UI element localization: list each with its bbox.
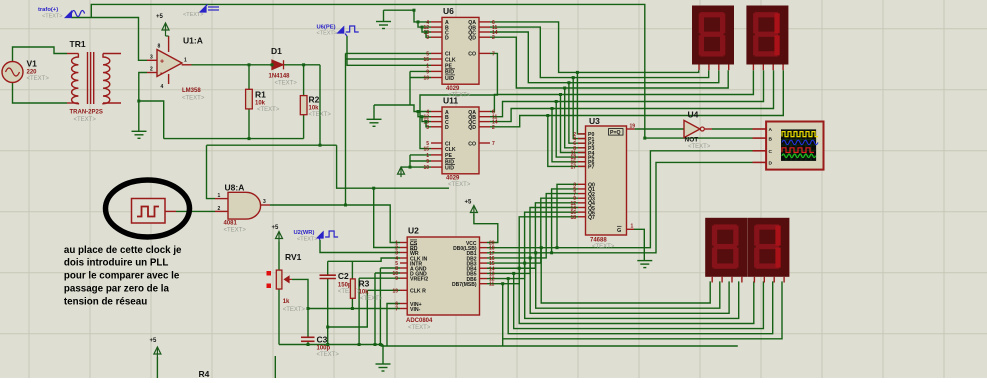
svg-text:C2: C2 [338,271,349,281]
wire - ground stem U11 [373,105,375,119]
svg-text:U/D: U/D [445,165,454,171]
svg-text:NOT: NOT [685,137,699,144]
svg-text:trafo(+): trafo(+) [38,7,58,13]
wire - D GND down to rail [374,273,376,345]
svg-text:1: 1 [426,63,429,69]
svg-text:<TEXT>: <TEXT> [283,307,306,313]
svg-text:U3: U3 [589,116,600,126]
svg-text:2: 2 [150,67,153,73]
wire - U6 CI row [346,52,432,54]
voltage probe on op-amp top net [200,6,219,12]
wire - U6 U/D row [410,77,431,79]
wire - DB6 to bottom display [508,279,773,334]
ADC U2 (ADC0804) [407,237,479,315]
svg-text:<TEXT>: <TEXT> [338,289,361,295]
clock source (square wave generator) [132,199,166,224]
power +5V arrow bottom left [154,347,161,357]
wire - tap down to U3 P1 [573,78,585,139]
wire - top long net from probe node to scope channel B [91,4,752,138]
buffer U4 (NOT gate) [684,120,700,137]
wire - DB1 to bottom display [536,253,720,308]
voltage probe U2(WR) [317,231,338,238]
wire - U11 jam D [426,122,431,127]
svg-text:+5: +5 [272,225,280,231]
svg-text:15: 15 [423,147,429,153]
svg-text:+5: +5 [465,200,473,206]
wire - +5 stem bottom [156,357,158,378]
svg-text:QD: QD [468,36,476,42]
svg-text:<TEXT>: <TEXT> [360,296,383,302]
svg-text:U8:A: U8:A [225,183,245,193]
wire - signal down and right [337,145,449,188]
wire - U6 B/D,U/D tie down [409,71,411,105]
wire - P=Q output to U4 input [635,128,684,130]
wire - +5 to RV1 top [278,242,280,271]
svg-text:3: 3 [263,199,266,205]
power +5V arrow for U1:A [162,23,169,33]
svg-text:U11: U11 [443,96,458,106]
svg-text:A: A [769,127,773,133]
svg-text:<TEXT>: <TEXT> [42,14,62,20]
wire - C3 bottom lead [307,341,309,344]
wire - feedback branch [139,101,164,139]
wire - U2 DB6 to U3 Q6 [487,212,578,278]
scope trace channel C (red square) [782,148,814,153]
svg-text:19: 19 [392,288,398,294]
svg-text:1k: 1k [283,299,290,305]
svg-text:QD: QD [468,125,476,131]
wire - U11 PE/BD tie [409,155,411,167]
wire - DB5 to bottom display [514,273,764,328]
ground - U11 jam inputs [367,119,382,126]
svg-text:VREF/2: VREF/2 [410,277,428,283]
wire - U6 jam B [418,22,431,27]
svg-text:7: 7 [492,141,495,147]
junction dots [137,100,140,103]
svg-text:P7: P7 [588,165,594,171]
scope trace channel B (blue sine) [782,140,818,144]
AND gate U8:A [228,192,261,219]
svg-text:D: D [769,161,773,167]
svg-text:1: 1 [426,153,429,159]
annotation ellipse around clock [106,180,190,237]
svg-text:<TEXT>: <TEXT> [182,96,205,102]
wire - wire to R4 off-screen [274,356,276,378]
wire - U6 QD to display1 [490,37,728,88]
wire - C2/R3 top node to U2 CLK IN [328,258,400,261]
wire - C2 bottom lead to rail [327,279,329,345]
7-segment display: top display 2 [746,6,788,65]
wire - U2 CLK R row [367,289,400,291]
svg-text:CLK: CLK [445,147,456,153]
svg-text:RV1: RV1 [285,252,302,262]
wire - DB7 vertical tie to ground line [502,339,504,346]
wire - DB1 up to U3 Q1 [552,189,578,253]
wire - V1 top to TR1 primary [13,47,68,62]
wire - R3 top lead [351,261,353,279]
wire - U2 VCC to +5 [474,214,498,243]
wire - op-amp inverting input down to ground [139,73,147,132]
svg-text:G: G [617,228,621,234]
svg-text:R3: R3 [359,278,370,288]
wire - DB3 to bottom display [525,263,739,318]
power +5V arrow for RV1 [276,232,283,242]
wire - U11 QD to display2 [490,70,783,127]
svg-text:R2: R2 [309,95,320,105]
svg-text:CLK R: CLK R [410,289,426,295]
svg-text:220: 220 [27,70,38,76]
wire - ground stem top [383,10,385,21]
wire - tap down to U3 P7 [548,116,586,167]
wire - U8:A output to U2 CS [270,205,400,243]
wire - U11 PE row [410,154,431,156]
wire - DB7 to bottom display [503,281,782,338]
wire - ground to U6 jam input A [384,10,432,22]
wire - tap down to U3 P2 [569,83,586,144]
svg-text:C: C [769,149,773,155]
wire - tap down to U3 P5 [556,102,585,158]
svg-text:TR1: TR1 [70,39,86,49]
wire - U11 B/D row [410,160,431,162]
svg-text:74688: 74688 [590,238,607,244]
wire - RV1 wiper to U2 VIN- [292,279,400,308]
svg-text:au place de cette clock je: au place de cette clock je [64,245,182,256]
comparator U3 (74688) [586,126,627,235]
svg-text:VIN-: VIN- [410,307,421,313]
wire - U6 jam C [422,27,431,32]
svg-text:ADC0804: ADC0804 [406,318,433,324]
svg-text:<TEXT>: <TEXT> [275,81,298,87]
svg-text:15: 15 [423,57,429,63]
wire - U2 DB3 to U3 Q3 [487,198,578,263]
svg-text:R4: R4 [199,369,210,378]
svg-text:7: 7 [395,307,398,313]
wire - U2 D GND row [375,272,400,274]
wire - long ground return line [381,345,738,347]
svg-text:1: 1 [631,224,634,230]
svg-text:18: 18 [570,215,576,221]
wire - probe to U6 PE [347,36,431,65]
diode D1 [272,60,284,69]
wire - U11 QC to display2 [490,70,774,121]
wire - tap down to U3 P6 [552,109,586,162]
counter U11 (4029) [442,107,479,174]
svg-text:<TEXT>: <TEXT> [317,352,340,358]
scope trace channel D (green sine) [782,154,816,158]
svg-text:2: 2 [492,35,495,41]
svg-text:TRAN-2P2S: TRAN-2P2S [70,110,103,116]
svg-text:U2: U2 [408,226,419,236]
wire - analog ground rail [279,344,383,346]
wire - R3 bottom lead [351,298,353,308]
svg-text:<TEXT>: <TEXT> [297,237,317,243]
svg-text:P=Q: P=Q [610,130,621,136]
svg-text:<TEXT>: <TEXT> [688,144,711,150]
svg-text:4029: 4029 [446,176,460,182]
wire - probe node to op-amp non-inverting input [71,18,147,61]
oscilloscope [766,122,823,170]
capacitor C3 [301,337,315,341]
wire - tap down to U3 P3 [565,88,586,148]
wire - ground to U11 jam A [374,105,431,112]
wire - DB4 to bottom display [519,268,754,323]
svg-text:+: + [160,59,164,66]
svg-text:<TEXT>: <TEXT> [257,107,280,113]
wire - U6 CLK row [346,58,432,60]
transformer TR1 [67,52,121,104]
wire - U4 output to scope A [712,128,753,130]
svg-text:dois introduire un PLL: dois introduire un PLL [64,258,169,269]
wire - zero-cross signal line [207,144,337,146]
power +5V arrow for U2 VCC [470,206,477,216]
7-segment display: bottom display 3 [705,218,747,277]
wire - U11 jam C [422,117,431,122]
wire - tap down to U3 P4 [561,95,586,153]
wire - U6 CO cascade to U11 CLK [420,53,497,148]
svg-text:CO: CO [468,52,476,58]
svg-text:B: B [769,136,773,142]
svg-text:10k: 10k [255,101,266,107]
svg-text:9: 9 [426,69,429,75]
svg-text:CLK: CLK [445,57,456,63]
svg-text:17: 17 [570,164,576,170]
svg-text:8: 8 [158,44,161,50]
svg-text:DB7(MSB): DB7(MSB) [452,282,477,288]
wire - U2 DB5 to U3 Q5 [487,208,578,274]
power +5V arrow for U11 [398,167,405,177]
svg-text:<TEXT>: <TEXT> [74,117,97,123]
wire - tap down to U3 P0 [577,72,585,133]
svg-text:3: 3 [426,35,429,41]
svg-text:10k: 10k [359,290,370,296]
voltage source V1 [2,62,23,83]
svg-text:7: 7 [492,51,495,57]
svg-text:D: D [445,125,449,131]
svg-text:4081: 4081 [224,221,238,227]
wire - U2 DB2 to U3 Q2 [487,194,578,258]
ground - analog rail [376,364,391,371]
svg-text:4: 4 [161,84,164,90]
svg-text:3: 3 [150,55,153,61]
wire - signal to U8:A input 1 [207,145,216,198]
svg-text:100p: 100p [317,346,331,352]
counter U6 (4029) [442,17,479,84]
wire - V1 bottom to TR1 primary [13,83,68,104]
svg-text:U1:A: U1:A [183,36,203,46]
svg-text:passage par zero de la: passage par zero de la [64,284,170,295]
svg-text:4029: 4029 [446,86,460,92]
svg-text:19: 19 [630,124,636,130]
wire - U3 G to ground [634,229,644,260]
svg-text:V1: V1 [27,59,38,69]
potentiometer RV1 [276,270,282,289]
wire - bottom rail of R1/R2 network [164,138,304,140]
svg-text:LM358: LM358 [182,88,201,94]
svg-text:<TEXT>: <TEXT> [408,325,431,331]
capacitor C2 [320,275,336,278]
svg-text:2: 2 [492,125,495,131]
ground - U3 enable [637,261,652,268]
svg-text:D1: D1 [271,46,282,56]
svg-text:Q7: Q7 [588,215,595,221]
svg-text:10: 10 [423,165,429,171]
svg-text:U/D: U/D [445,76,454,82]
wire - branch to U2 RD [374,188,400,247]
svg-text:1N4148: 1N4148 [269,74,291,80]
wire - U2 DB4 to U3 Q4 [487,203,578,268]
wire - U2 DB0 row to scope C [487,151,753,248]
wire - DB2 to bottom display [530,258,729,313]
svg-text:pour le comparer avec le: pour le comparer avec le [64,271,180,282]
svg-text:<TEXT>: <TEXT> [309,112,332,118]
wire - U11 jam B [418,112,431,117]
svg-text:<TEXT>: <TEXT> [27,76,50,82]
resistor R3 [350,279,355,298]
wire - rail to ground [382,345,384,364]
resistor R1 [248,65,250,90]
wire - C2 top lead [327,261,329,275]
wire - op-amp output net [192,64,321,66]
svg-text:<TEXT>: <TEXT> [183,12,203,18]
wire - CLK R to C2 bottom [328,290,368,327]
voltage probe trafo(+) [65,11,84,18]
ground - op-amp network [132,131,147,138]
resistor R2 [303,65,305,96]
wire - U6 jam D [426,32,431,37]
svg-text:<TEXT>: <TEXT> [592,244,615,250]
wire - VREF/2 down to rail [358,278,360,344]
svg-text:11: 11 [489,282,495,288]
scope trace channel A (yellow square) [782,132,818,137]
svg-text:9: 9 [426,159,429,165]
svg-text:D: D [445,36,449,42]
wire - U11 QA to display2 [490,70,753,111]
voltage probe U6(PE) [338,26,359,33]
svg-text:U2(WR): U2(WR) [294,230,315,236]
wire - clock source to U8:A input 2 [176,210,215,212]
wire - A GND down to rail [379,268,381,345]
svg-text:CO: CO [468,141,476,147]
svg-text:10k: 10k [309,106,320,112]
wire - probe to U2 WR [320,240,400,253]
svg-text:tension de réseau: tension de réseau [64,296,147,307]
wire - C3 top lead [307,309,309,338]
wire - DB0 up to U3 Q0 [557,184,578,247]
svg-text:1: 1 [218,193,221,199]
op-amp U1:A [147,36,192,84]
wire - VIN+ row [387,304,400,347]
svg-text:10: 10 [423,76,429,82]
wire - U11 QB to display2 [490,70,764,117]
wire - output net down right of R2 [319,65,321,145]
wire - U2 A GND row [380,267,400,269]
7-segment display: bottom display 4 [747,218,789,277]
wire - U2 DB1 row to scope D [487,162,753,252]
ground - U6 jam inputs [376,22,391,29]
wire - U6 QA to display1 [490,22,699,73]
svg-text:R1: R1 [255,90,266,100]
7-segment display: top display 1 [692,6,734,65]
wire - RV1 bottom to rail [278,289,280,345]
svg-text:U6: U6 [443,6,454,16]
svg-text:2: 2 [218,206,221,212]
wire - DB0 to bottom display [541,248,710,303]
svg-text:+5: +5 [156,14,164,20]
wire - clock vertical to counters [345,53,347,205]
svg-text:<TEXT>: <TEXT> [224,228,247,234]
svg-text:<TEXT>: <TEXT> [317,31,337,37]
wire - U6 QB to display1 [490,27,709,78]
wire - U6 B/D row [410,70,431,72]
svg-text:1: 1 [184,58,187,64]
svg-text:<TEXT>: <TEXT> [448,182,471,188]
svg-text:+5: +5 [150,338,158,344]
svg-text:9: 9 [395,276,398,282]
wire - U6 QC to display1 [490,32,719,83]
svg-text:U4: U4 [688,110,699,120]
wire - U2 DB7 to U3 Q7 [487,217,578,284]
wire - U2 VREF/2 row [359,277,400,279]
svg-text:3: 3 [426,125,429,131]
svg-text:C3: C3 [317,335,328,345]
wire - U11 U/D to +5 [401,166,431,168]
